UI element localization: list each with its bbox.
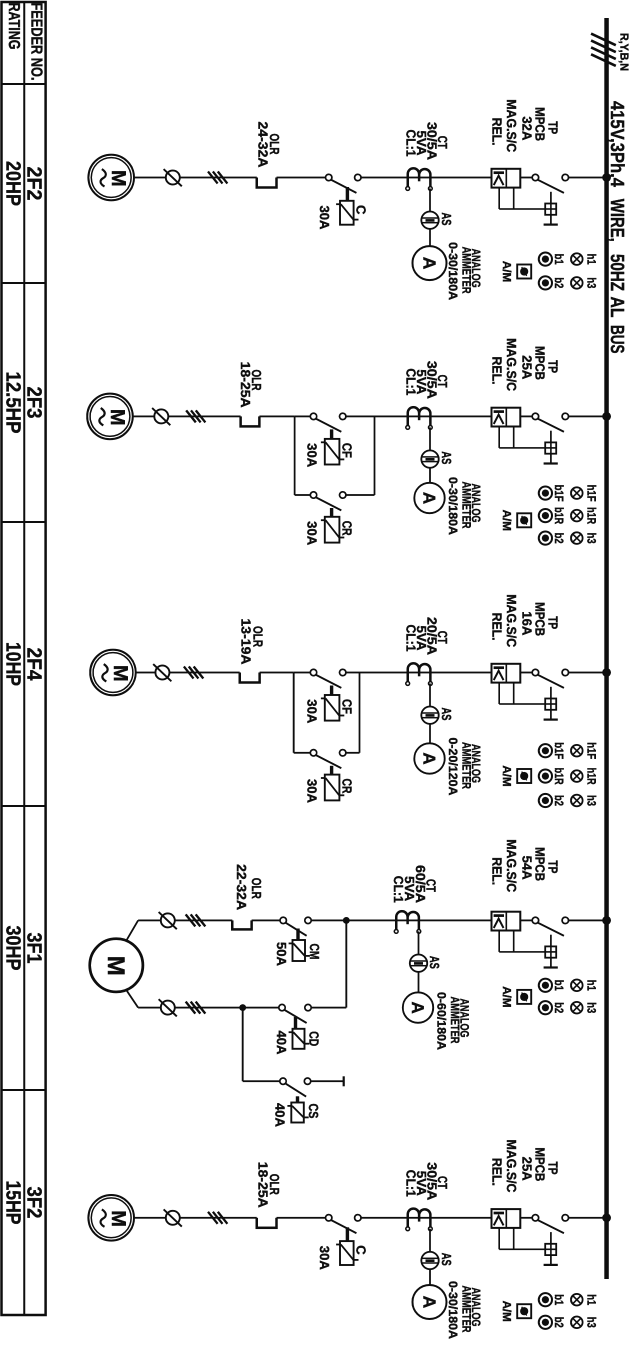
svg-text:0-60/180A: 0-60/180A [434,992,448,1050]
svg-text:CF: CF [339,699,354,714]
wire 2F3 loop to OLR [259,415,294,417]
A/M selector 2F2 [517,265,531,279]
CS link 3F1 [296,1096,299,1102]
svg-text:h1: h1 [584,254,598,265]
MPCB 2F2 [492,169,521,188]
svg-text:0-30/180A: 0-30/180A [446,1281,460,1339]
wire 3F1 OLR to isolator [175,919,233,921]
feeder 3F1 breaker contact [562,917,568,923]
svg-text:M: M [107,1210,129,1227]
contact CM 3F1 [305,917,311,923]
ammeter 3F2 [413,1285,447,1319]
phase marks 2F4 [184,667,194,679]
motor lead 3F1 delta [127,990,139,1007]
svg-text:AMMETER: AMMETER [459,247,473,294]
svg-text:25A: 25A [519,355,534,380]
svg-text:MPCB: MPCB [533,602,548,636]
isolator 2F2 [166,171,180,185]
CT 2F4 [408,663,431,681]
svg-text:b2: b2 [552,1317,566,1328]
svg-text:b2: b2 [552,277,566,288]
svg-text:A: A [419,1296,439,1309]
feeder 3F2 wire contact to MPCB [520,1217,532,1219]
coil CR 2F3 [325,517,340,543]
svg-text:C: C [354,205,369,215]
MPCB 2F4 linkage [513,683,515,704]
feeder 3F2 breaker contact [562,1215,568,1221]
CT 2F2 [408,168,431,186]
svg-text:CL:1: CL:1 [404,368,419,395]
CT 2F3 [408,407,431,425]
svg-text:AL: AL [606,297,627,318]
feeder 3F2 trip aux box [550,1232,552,1244]
star point bar 3F1 [343,1076,345,1086]
svg-text:h3: h3 [584,277,598,288]
svg-text:CL:1: CL:1 [404,625,419,652]
svg-text:3F1: 3F1 [23,933,46,964]
svg-text:MAG.S/C: MAG.S/C [504,99,519,153]
contactor contact 3F2 [355,1215,361,1221]
wire 3F2 AS to ammeter [429,1269,431,1285]
svg-text:0-20/120A: 0-20/120A [446,738,460,796]
svg-text:h3: h3 [584,533,598,544]
wire 3F1 AS to ammeter [418,972,420,992]
svg-text:M: M [106,409,128,426]
wire 2F3 CT to AS [429,427,431,450]
CT 3F1 [396,911,419,929]
CF link 2F3 [330,429,333,439]
OLR 2F2 [257,178,277,188]
motor 3F2 [88,1195,134,1241]
MPCB 2F4 [492,664,521,683]
bus 415V 3Ph 50HZ AL [604,18,609,1279]
svg-text:30A: 30A [304,779,319,804]
connector 3F1 main to delta line [345,920,347,1007]
feeder 3F1 wire bus to breaker contact [569,919,605,921]
svg-text:REL.: REL. [490,118,505,146]
feeder 2F3 trip aux box [550,431,552,443]
svg-text:TP: TP [546,121,561,134]
svg-text:b1R: b1R [552,507,566,524]
indicator lamps 3F1 [571,980,583,992]
svg-text:AMMETER: AMMETER [448,997,462,1044]
svg-text:50HZ: 50HZ [606,254,627,291]
OLR 2F3 [241,416,260,426]
svg-text:BUS: BUS [606,325,627,354]
svg-text:C: C [354,1245,369,1255]
contact CD 3F1 [305,1004,311,1010]
junction dot 3F1 star tap [239,1004,246,1011]
svg-text:30A: 30A [317,1246,332,1271]
wire 2F3 OLR to isolator [168,415,240,417]
feeder 2F4 wire bus to breaker contact [569,672,605,674]
svg-text:MAG.S/C: MAG.S/C [504,839,519,893]
svg-text:32A: 32A [519,116,534,141]
svg-text:h1R: h1R [584,768,598,785]
svg-text:24-32A: 24-32A [255,122,270,169]
phase marks 2F2 [208,172,218,184]
ammeter 2F2 [413,246,447,280]
ammeter 3F1 [403,992,433,1022]
contactor link 3F2 [346,1227,349,1240]
feeder 2F2 wire MPCB to contactor [361,177,492,179]
contactor coil C 2F2 [340,201,354,225]
svg-text:OLR: OLR [249,878,264,899]
svg-text:CL:1: CL:1 [391,876,406,903]
svg-text:TP: TP [546,860,561,873]
CR link 2F3 [330,508,333,517]
A/M selector 2F4 [517,769,531,783]
svg-text:30A: 30A [304,443,319,468]
phase marks 2F3 [186,410,196,422]
phase marks 3F1 main [186,914,196,926]
wire 2F2 CT to AS [429,189,431,212]
indicator lamps 2F2 [571,253,583,265]
svg-text:b2: b2 [552,795,566,806]
A/M selector 3F1 [517,990,531,1004]
feeder 2F2 junction on bus [602,173,611,182]
svg-text:A: A [420,752,439,764]
MPCB 3F2 [492,1209,521,1228]
wire 2F2 OLR to isolator [180,177,257,179]
svg-text:A/M: A/M [500,1301,513,1322]
svg-text:REL.: REL. [490,357,505,385]
svg-text:A: A [408,1001,427,1013]
svg-text:TP: TP [546,1162,561,1175]
svg-text:M: M [102,956,129,976]
feeder 2F4 wire MPCB to loop [346,672,492,674]
svg-text:16A: 16A [519,611,534,636]
svg-text:25A: 25A [519,1157,534,1182]
junction dot 3F1 delta tap [343,917,350,924]
isolator 3F2 [166,1211,180,1225]
feeder 3F1 junction on bus [602,916,611,925]
wire 2F4 OLR to isolator [169,672,239,674]
svg-text:AMMETER: AMMETER [459,482,473,529]
feeder table grid [2,2,46,1315]
feeder 2F2 wire bus to breaker contact [569,177,605,179]
svg-text:WIRE,: WIRE, [606,199,627,242]
A/M selector 3F2 [517,1304,531,1318]
isolator 2F4 [155,666,169,680]
coil CF 2F4 [325,695,340,721]
feeder 2F3 junction on bus [602,412,611,421]
OLR 3F2 [257,1218,277,1228]
MPCB 3F2 linkage [513,1228,515,1249]
feeder 2F3 wire bus to breaker contact [569,415,605,417]
contact CF 2F4 [340,669,346,675]
svg-text:MAG.S/C: MAG.S/C [504,594,519,648]
contact CR 2F3 [340,492,346,498]
svg-text:CL:1: CL:1 [404,130,419,157]
svg-text:R,Y,B,N: R,Y,B,N [618,33,631,71]
wire 3F1 CD to star tap [243,1007,279,1009]
AS selector 3F1 [410,955,427,972]
wire 3F2 CT to AS [429,1229,431,1252]
contactor link 2F2 [346,187,349,200]
svg-text:A/M: A/M [500,986,513,1007]
svg-text:2F4: 2F4 [23,648,46,682]
loop top connector 2F4 [359,673,361,753]
svg-text:h1: h1 [584,980,598,991]
feeder 3F1 wire contact to MPCB [520,919,532,921]
feeder 2F3 breaker contact [562,413,568,419]
svg-text:b1: b1 [552,1294,566,1305]
svg-text:h1R: h1R [584,507,598,524]
svg-text:A/M: A/M [500,261,513,282]
motor 2F3 [87,394,133,440]
svg-text:15HP: 15HP [1,1181,24,1225]
feeder 2F3 wire contact to MPCB [520,415,532,417]
wire 2F4 CT to AS [429,684,431,707]
svg-text:REL.: REL. [490,613,505,641]
svg-text:30A: 30A [317,205,332,230]
wire 2F3 AS to ammeter [429,468,431,482]
feeder 2F3 wire MPCB to loop [346,415,492,417]
OLR 2F4 [240,673,260,683]
coil CS 3F1 [291,1103,304,1123]
AS selector 3F2 [421,1252,438,1269]
svg-text:MPCB: MPCB [533,847,548,881]
svg-text:TP: TP [546,616,561,629]
feeder 3F2 wire bus to breaker contact [569,1217,605,1219]
svg-text:M: M [109,665,131,682]
coil CD 3F1 [293,1029,305,1049]
svg-text:CR: CR [339,521,354,536]
feeder 2F4 breaker contact [562,669,568,675]
svg-text:MAG.S/C: MAG.S/C [504,1140,519,1194]
svg-text:CL:1: CL:1 [404,1170,419,1197]
AS selector 2F4 [421,707,438,724]
wire 2F4 isolator to motor [136,672,156,674]
motor 2F2 [88,155,134,201]
wire 3F2 contactor to OLR [277,1217,326,1219]
svg-text:REL.: REL. [490,857,505,885]
feeder 2F2 wire contact to MPCB [520,177,532,179]
svg-text:40A: 40A [273,1103,288,1128]
svg-text:A: A [420,492,439,504]
loop right line 2F4 lower [294,752,311,754]
CR link 2F4 [330,766,333,775]
motor 2F4 [90,650,136,696]
loop bottom connector 2F3 [294,416,296,495]
svg-text:CF: CF [339,443,354,458]
isolator 3F1 main [161,913,175,927]
svg-text:2F3: 2F3 [23,387,46,419]
svg-text:13-19A: 13-19A [238,619,253,666]
feeder 3F1 trip aux box [550,935,552,947]
svg-text:12.5HP: 12.5HP [1,372,24,434]
svg-text:40A: 40A [274,1030,289,1055]
MPCB 3F1 linkage [513,931,515,952]
svg-text:AS: AS [439,708,454,721]
svg-text:18-25A: 18-25A [238,362,253,409]
loop bottom connector 2F4 [293,673,295,753]
motor lead 3F1 main [127,920,139,940]
contactor coil C 3F2 [340,1241,354,1265]
svg-text:A/M: A/M [500,765,513,786]
svg-text:50A: 50A [274,942,289,967]
svg-text:2F2: 2F2 [23,167,46,201]
connector 3F1 star [242,1008,244,1082]
svg-text:AS: AS [427,956,442,969]
star line 3F1 [243,1080,280,1082]
svg-text:b2: b2 [552,533,566,544]
svg-text:CM: CM [307,944,322,960]
svg-text:MPCB: MPCB [533,1147,548,1181]
wire 2F4 loop to OLR [260,672,294,674]
svg-text:TP: TP [546,360,561,373]
svg-text:30A: 30A [304,521,319,546]
svg-text:h1: h1 [584,1294,598,1305]
svg-text:30A: 30A [304,699,319,724]
contactor contact 2F2 [355,174,361,180]
svg-text:AMMETER: AMMETER [459,1286,473,1333]
svg-text:MPCB: MPCB [533,107,548,141]
svg-text:M: M [107,170,129,187]
wire 3F1 star tap to isolator [175,1007,243,1009]
wire 2F2 isolator to motor [134,177,166,179]
svg-text:CS: CS [306,1104,321,1119]
svg-text:22-32A: 22-32A [234,864,249,911]
contact CS 3F1 [304,1078,310,1084]
MPCB 2F3 [492,408,521,427]
svg-text:0-30/180A: 0-30/180A [446,242,460,300]
delta line 3F1 upper [311,1007,346,1009]
wire 3F2 isolator to motor [134,1217,166,1219]
svg-text:b1R: b1R [552,768,566,785]
svg-text:b1F: b1F [552,485,566,502]
wire 3F2 OLR to isolator [180,1217,257,1219]
feeder 2F4 junction on bus [602,668,611,677]
motor 3F1 [90,939,143,992]
phase marks 3F1 delta [186,1002,196,1014]
coil CF 2F3 [325,439,340,465]
svg-text:AS: AS [439,1253,454,1266]
loop top connector 2F3 [374,416,376,495]
AS selector 2F2 [421,212,438,229]
wire 3F1 isolator to motor lead [138,919,161,921]
svg-text:54A: 54A [519,856,534,881]
svg-text:30HP: 30HP [1,926,24,971]
svg-text:18-25A: 18-25A [255,1162,270,1209]
svg-text:A: A [419,257,439,270]
svg-text:h3: h3 [584,795,598,806]
feeder 2F4 wire contact to MPCB [520,672,532,674]
ammeter 2F3 [414,483,444,513]
svg-text:b2: b2 [552,1002,566,1013]
svg-text:h1F: h1F [584,742,598,759]
svg-text:h3: h3 [584,1317,598,1328]
MPCB 2F3 linkage [513,427,515,448]
contact CR 2F4 [340,750,346,756]
star line 3F1 to star point [311,1080,344,1082]
isolator 3F1 delta [161,1001,175,1015]
wire 2F3 loop to contactor gap [295,415,311,417]
loop right line 2F3 upper [346,494,375,496]
feeder 2F4 trip aux box [550,687,552,699]
wire 3F1 delta isolator to motor lead [138,1007,161,1009]
wire 2F4 AS to ammeter [429,724,431,743]
OLR 3F1 [232,920,251,929]
wire 3F1 CT to AS [418,931,420,954]
svg-text:MPCB: MPCB [533,346,548,380]
A/M selector 2F3 [517,513,531,527]
feeder 3F2 junction on bus [602,1213,611,1222]
svg-text:b1: b1 [552,980,566,991]
CT 3F2 [408,1209,431,1227]
wire 3F1 CM to OLR [252,919,280,921]
wire 2F3 isolator to motor [133,415,155,417]
svg-text:AS: AS [439,213,454,226]
feeder 2F2 trip aux box [550,192,552,204]
CF link 2F4 [330,686,333,696]
svg-text:20HP: 20HP [1,161,24,206]
loop right line 2F3 lower [295,494,311,496]
svg-text:10HP: 10HP [1,642,24,686]
coil CR 2F4 [325,775,340,801]
CD link 3F1 [294,1017,297,1029]
loop right line 2F4 upper [346,752,360,754]
indicator lamps 2F3 [571,487,583,499]
svg-text:h3: h3 [584,1002,598,1013]
AS selector 2F3 [421,450,438,467]
indicator lamps 2F4 [571,745,583,757]
wire 2F2 AS to ammeter [429,229,431,246]
feeder 3F1 wire MPCB to CM contact [311,919,491,921]
svg-text:REL.: REL. [490,1158,505,1186]
svg-text:b1F: b1F [552,742,566,759]
wire 2F2 contactor to OLR [277,177,326,179]
svg-text:AS: AS [439,451,454,464]
svg-text:MAG.S/C: MAG.S/C [504,338,519,392]
svg-text:A/M: A/M [500,510,513,531]
svg-text:h1F: h1F [584,485,598,502]
bus phase slashes R,Y,B,N [591,34,616,46]
MPCB 3F1 [492,912,521,931]
CM link 3F1 [296,929,299,941]
svg-text:FEEDER NO.: FEEDER NO. [27,3,44,81]
svg-text:3F2: 3F2 [23,1187,46,1219]
contact CF 2F3 [340,413,346,419]
svg-text:0-30/180A: 0-30/180A [446,477,460,535]
feeder 3F2 wire MPCB to contactor [361,1217,492,1219]
MPCB 2F2 linkage [513,188,515,209]
ammeter 2F4 [414,743,444,773]
isolator 2F3 [154,409,168,423]
svg-text:b1: b1 [552,254,566,265]
phase marks 3F2 [208,1212,218,1224]
feeder 2F2 breaker contact [562,174,568,180]
indicator lamps 3F2 [571,1294,583,1306]
wire 2F4 loop to contactor gap [294,672,311,674]
coil CM 3F1 [293,940,306,961]
svg-text:AMMETER: AMMETER [459,742,473,789]
svg-text:RATING: RATING [5,3,22,50]
svg-text:CD: CD [307,1031,322,1046]
svg-text:CR: CR [339,779,354,794]
